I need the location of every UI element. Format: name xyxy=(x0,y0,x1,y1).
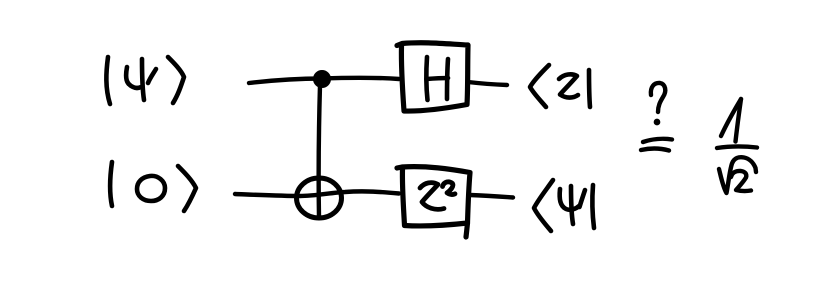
gate H letter xyxy=(426,57,448,100)
gate H box xyxy=(397,43,468,111)
wire Z to bra psi xyxy=(470,195,513,198)
node |psi> input label xyxy=(106,57,184,104)
wire bottom qubit xyxy=(235,191,399,196)
bra <z| output label xyxy=(530,65,590,107)
wire vertical CNOT link xyxy=(319,85,320,218)
control dot CNOT xyxy=(314,71,330,87)
fraction 1 over sqrt 2 xyxy=(717,99,757,193)
question mark over equals xyxy=(641,83,672,151)
bra <psi| output label xyxy=(534,180,594,231)
node |0> input label xyxy=(110,162,196,211)
gate Z^z label xyxy=(420,182,455,210)
wire H to bra z xyxy=(468,82,507,85)
gate Z box overshoot tail xyxy=(466,223,468,237)
gate Z box xyxy=(397,167,470,226)
wire top qubit xyxy=(249,78,399,83)
CNOT target circle xyxy=(297,178,342,218)
